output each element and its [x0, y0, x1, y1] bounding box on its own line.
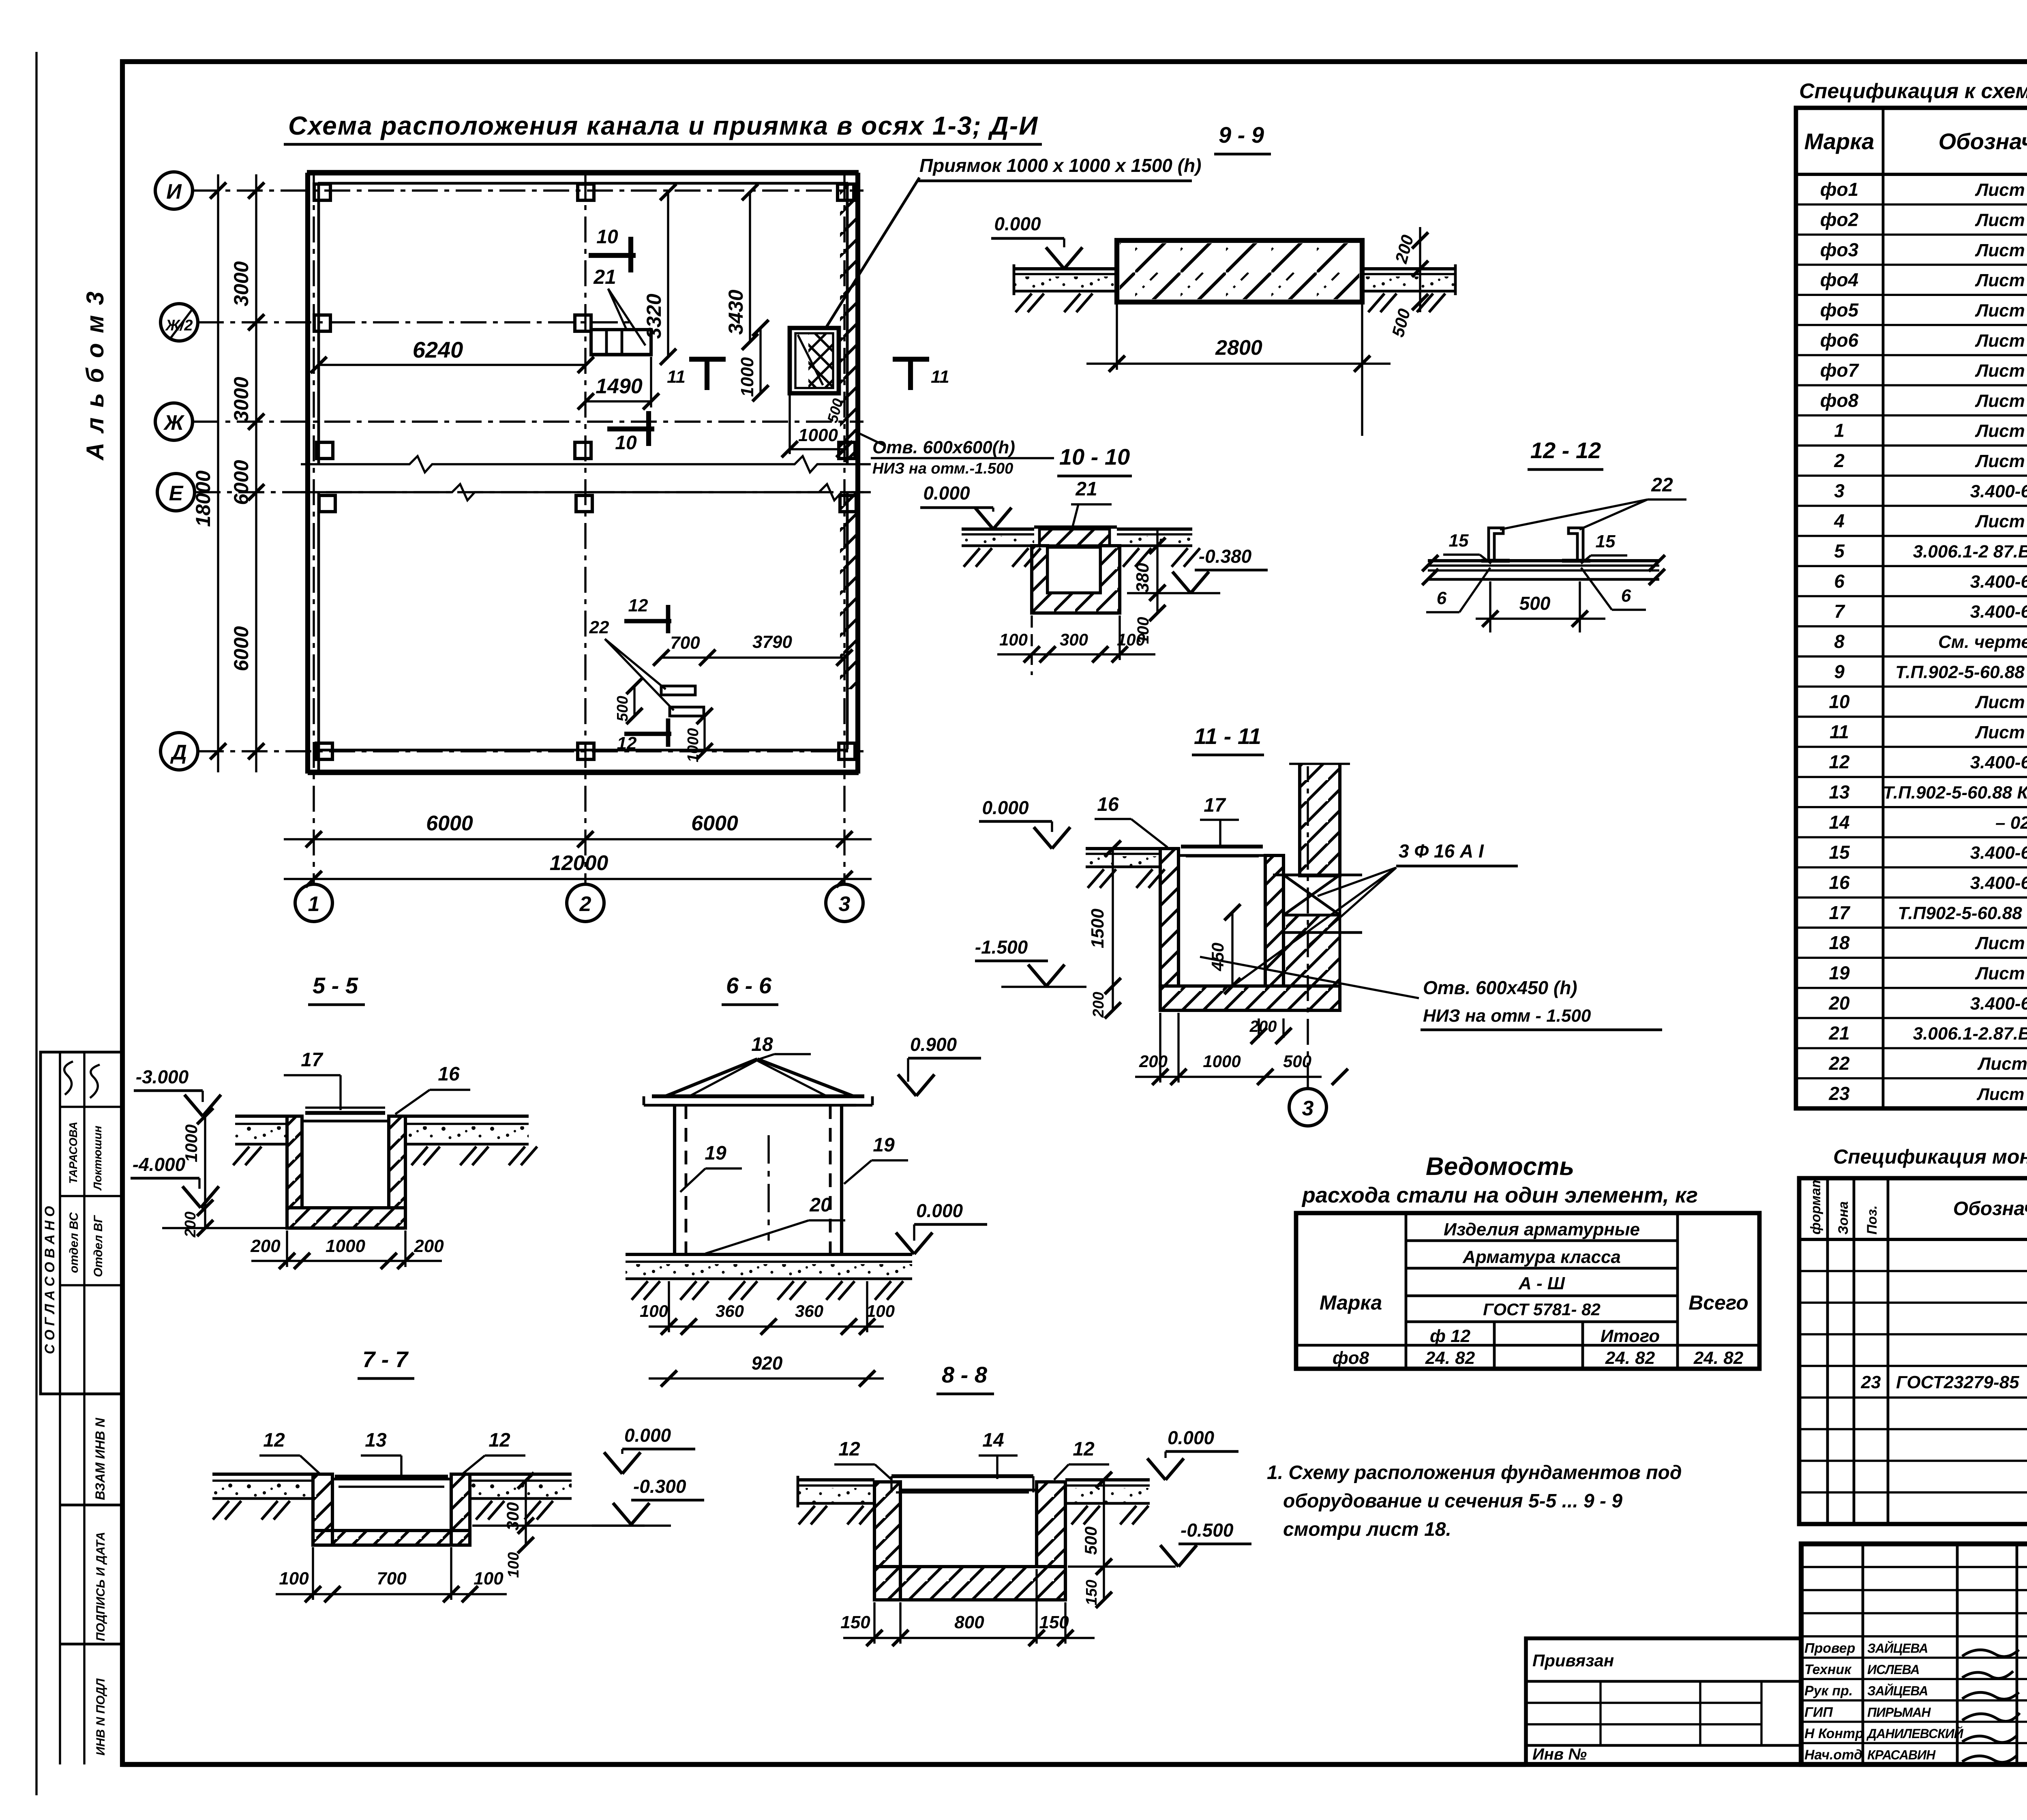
- svg-text:Схема расположения канала и: Схема расположения канала и приямка в ос…: [288, 111, 1038, 140]
- svg-text:19: 19: [1829, 962, 1850, 983]
- section 12-12 bracket right item 22: [1568, 528, 1583, 561]
- svg-text:смотри лист 18.: смотри лист 18.: [1283, 1519, 1451, 1540]
- dimension 3320 rotated: [667, 192, 669, 357]
- svg-text:0.000: 0.000: [982, 797, 1029, 818]
- svg-text:920: 920: [752, 1353, 783, 1374]
- svg-text:200: 200: [182, 1211, 199, 1237]
- svg-text:13: 13: [365, 1430, 387, 1451]
- svg-text:Лист 18: Лист 18: [1975, 421, 2027, 441]
- section 11-11 cover plate: [1181, 845, 1263, 849]
- section 6-6 eave caps: [643, 1096, 645, 1105]
- svg-text:10 - 10: 10 - 10: [1059, 444, 1130, 469]
- section 8-8 pit cavity: [900, 1490, 1037, 1567]
- svg-text:6: 6: [1834, 570, 1845, 592]
- svg-text:фо8: фо8: [1820, 390, 1859, 411]
- section 12-12 bracket left item 22: [1489, 528, 1503, 561]
- svg-text:фо1: фо1: [1820, 179, 1858, 200]
- section mark 11 right: [893, 357, 929, 362]
- frame bottom continues left of title extension: [122, 1762, 1526, 1767]
- svg-text:22: 22: [589, 617, 609, 637]
- svg-text:13: 13: [1829, 782, 1850, 803]
- svg-text:6000: 6000: [230, 626, 253, 671]
- svg-text:100: 100: [1117, 630, 1145, 649]
- svg-text:12: 12: [838, 1438, 860, 1460]
- svg-text:формат: формат: [1808, 1176, 1823, 1235]
- section 6-6 roof lines: [665, 1059, 757, 1096]
- section 5-5 cover plate 17: [305, 1111, 385, 1115]
- svg-text:17: 17: [1829, 902, 1851, 923]
- svg-text:Отдел ВГ: Отдел ВГ: [92, 1215, 105, 1277]
- svg-text:100: 100: [999, 630, 1028, 649]
- section 8-8 left slab: [798, 1478, 874, 1481]
- svg-text:0.900: 0.900: [910, 1034, 957, 1055]
- svg-text:ДАНИЛЕВСКИЙ: ДАНИЛЕВСКИЙ: [1866, 1726, 1964, 1741]
- svg-text:ГИП: ГИП: [1804, 1704, 1833, 1720]
- plan right wall hatching lower: [840, 493, 857, 689]
- axis line E: [195, 491, 864, 493]
- svg-text:10: 10: [615, 432, 637, 454]
- svg-text:Лист 17: Лист 17: [1975, 361, 2027, 381]
- section 5-5 left dim verticals: [204, 1116, 206, 1228]
- svg-text:500: 500: [614, 696, 631, 721]
- svg-text:Марка: Марка: [1804, 129, 1875, 154]
- svg-text:ГОСТ 5781- 82: ГОСТ 5781- 82: [1483, 1300, 1601, 1319]
- svg-text:Всего: Всего: [1688, 1291, 1748, 1314]
- section 8-8 pit left wall: [874, 1482, 900, 1600]
- svg-text:5: 5: [1834, 540, 1845, 562]
- big table rows: [1796, 204, 2027, 206]
- svg-text:9 - 9: 9 - 9: [1219, 122, 1264, 148]
- svg-text:Т.П902-5-60.88 -КЖИ170.00: Т.П902-5-60.88 -КЖИ170.00: [1898, 903, 2027, 923]
- svg-text:Лист 18: Лист 18: [1975, 722, 2027, 742]
- column squares row Zh: [317, 442, 333, 459]
- section 12-12 dim 500: [1476, 617, 1605, 620]
- svg-text:2: 2: [579, 892, 591, 916]
- svg-text:450: 450: [1208, 943, 1227, 971]
- dimension 500 rotated near D: [633, 686, 635, 716]
- section 10-10 left slab: [962, 527, 1034, 531]
- svg-text:Зона: Зона: [1836, 1201, 1851, 1235]
- svg-text:14: 14: [1829, 812, 1849, 833]
- axis circle 3: [826, 884, 863, 922]
- section 11-11 dim 200 small: [1258, 1018, 1260, 1038]
- svg-text:Е: Е: [169, 482, 184, 505]
- svg-text:12: 12: [1829, 751, 1850, 772]
- extension privyazan row: [1526, 1680, 1801, 1683]
- section 8-8 right slab: [1065, 1478, 1150, 1481]
- section 9-9 right slab: [1362, 267, 1455, 270]
- svg-text:18: 18: [1829, 932, 1850, 953]
- svg-text:800: 800: [954, 1612, 984, 1632]
- plan right wall inner line: [846, 183, 849, 463]
- svg-text:1000: 1000: [1203, 1052, 1241, 1071]
- dimension 3790 near D: [707, 656, 844, 658]
- svg-text:12: 12: [617, 733, 637, 753]
- svg-text:ПОДПИСЬ И ДАТА: ПОДПИСЬ И ДАТА: [94, 1532, 107, 1641]
- title block outer box: [1801, 1544, 2027, 1764]
- svg-text:700: 700: [377, 1569, 407, 1588]
- axis circle D: [161, 733, 198, 770]
- title block left grid verticals: [1862, 1544, 1864, 1764]
- svg-text:100: 100: [279, 1569, 309, 1588]
- section 6-6 top band: [652, 1094, 864, 1098]
- svg-text:500: 500: [1519, 593, 1551, 614]
- plan top wall outer line: [307, 170, 859, 176]
- svg-text:24. 82: 24. 82: [1693, 1348, 1744, 1368]
- bottom dimension line first: [284, 838, 872, 840]
- signature scribbles: [1962, 1650, 2019, 1657]
- second table outer box: [1799, 1178, 2027, 1524]
- svg-text:3000: 3000: [230, 377, 253, 422]
- vedomost table horizontals: [1406, 1239, 1678, 1242]
- svg-text:Лист 17: Лист 17: [1975, 933, 2027, 953]
- section 5-5 bottom dims: [251, 1260, 442, 1262]
- svg-text:5 - 5: 5 - 5: [313, 973, 358, 998]
- vedomost table outer box: [1296, 1213, 1759, 1369]
- svg-text:7 - 7: 7 - 7: [362, 1346, 409, 1372]
- axis circle Zh: [155, 403, 193, 440]
- axis line 3 vertical: [843, 173, 845, 884]
- svg-text:Отв. 600х600(h): Отв. 600х600(h): [872, 437, 1015, 457]
- svg-text:12: 12: [628, 596, 648, 615]
- column squares row I: [314, 184, 330, 200]
- svg-text:6240: 6240: [413, 337, 463, 362]
- svg-text:1500: 1500: [1088, 909, 1108, 948]
- svg-text:Техник: Техник: [1804, 1662, 1852, 1677]
- dimension 1000 rotated priyamok: [759, 328, 761, 393]
- svg-text:1000: 1000: [326, 1236, 365, 1256]
- section 7-7 pit cavity: [332, 1479, 451, 1531]
- outer cut border left edge: [35, 52, 37, 1795]
- dimension 700 near D: [661, 656, 707, 658]
- priyamok leader to note: [825, 178, 919, 329]
- svg-text:ИСЛЕВА: ИСЛЕВА: [1867, 1662, 1919, 1677]
- section 7-7 pit right wall: [451, 1474, 470, 1545]
- svg-text:100: 100: [866, 1301, 895, 1321]
- axis circle 1: [295, 884, 332, 922]
- otv leader 11-11: [1200, 957, 1419, 998]
- svg-text:12: 12: [489, 1430, 510, 1451]
- svg-text:-3.000: -3.000: [136, 1066, 189, 1087]
- svg-text:НИЗ на отм - 1.500: НИЗ на отм - 1.500: [1423, 1006, 1591, 1026]
- svg-text:22: 22: [1828, 1053, 1850, 1074]
- svg-text:отдел ВС: отдел ВС: [67, 1212, 81, 1273]
- dimension 1000 rotated near D: [703, 716, 705, 751]
- svg-text:11: 11: [667, 367, 686, 387]
- plan top wall inner line: [318, 182, 848, 185]
- svg-text:380: 380: [1133, 563, 1153, 593]
- soglasovano block inner verticals: [59, 1052, 61, 1394]
- svg-text:Лист 18: Лист 18: [1975, 391, 2027, 411]
- svg-text:21: 21: [593, 266, 616, 288]
- section 10-10 channel walls: [1032, 546, 1120, 613]
- column squares row D: [316, 743, 332, 759]
- svg-text:Инв №: Инв №: [1532, 1745, 1587, 1763]
- svg-text:3: 3: [1834, 480, 1845, 501]
- svg-text:3: 3: [839, 892, 851, 916]
- column squares row Zh/2: [314, 315, 330, 331]
- svg-text:Лист 18: Лист 18: [1975, 451, 2027, 471]
- svg-text:17: 17: [1204, 795, 1226, 816]
- svg-text:фо5: фо5: [1820, 299, 1859, 320]
- svg-text:0.000: 0.000: [923, 482, 970, 504]
- section 7-7 left slab: [212, 1473, 313, 1476]
- svg-text:8 - 8: 8 - 8: [942, 1362, 988, 1387]
- svg-text:6: 6: [1621, 586, 1631, 606]
- svg-text:фо7: фо7: [1820, 360, 1860, 381]
- section 11-11 bottom dims: [1135, 1076, 1322, 1078]
- section 5-5 pit bottom slab: [287, 1208, 405, 1228]
- svg-text:15: 15: [1449, 531, 1469, 551]
- title block left grid empty rows: [1801, 1566, 2027, 1568]
- svg-text:15: 15: [1829, 842, 1850, 863]
- section 8-8 right dim 500 150: [1103, 1480, 1105, 1600]
- svg-text:12: 12: [1073, 1438, 1095, 1460]
- section 7-7 right slab: [470, 1473, 572, 1476]
- svg-text:ПИРЬМАН: ПИРЬМАН: [1867, 1705, 1931, 1719]
- dimension 1490: [586, 400, 651, 402]
- plan break line lower: [301, 484, 871, 500]
- svg-text:1: 1: [1834, 420, 1845, 441]
- opening leader: [853, 431, 884, 445]
- left dimension line outer: [217, 174, 219, 772]
- svg-text:Т.П.902-5-60.88 -КЖИ100.00: Т.П.902-5-60.88 -КЖИ100.00: [1895, 662, 2027, 682]
- svg-text:Лист 19: Лист 19: [1975, 210, 2027, 230]
- svg-text:150: 150: [1083, 1580, 1100, 1605]
- section 11-11 right structure opening cross: [1283, 875, 1340, 915]
- svg-text:500: 500: [1081, 1526, 1100, 1555]
- column squares row E: [319, 495, 335, 512]
- svg-text:Т.П.902-5-60.88 КЖИ.160.00-03: Т.П.902-5-60.88 КЖИ.160.00-03: [1883, 783, 2027, 803]
- section 6-6 dims 100 360 360 100: [649, 1325, 884, 1327]
- section 8-8 pit bottom slab: [874, 1567, 1065, 1600]
- svg-text:Лист 18: Лист 18: [1975, 692, 2027, 712]
- svg-text:Обозначение: Обозначение: [1939, 129, 2027, 154]
- section 5-5 right slab: [405, 1115, 529, 1118]
- section 6-6 left wall: [673, 1105, 676, 1254]
- svg-text:3430: 3430: [724, 289, 747, 334]
- section 10-10 bottom dims: [997, 653, 1155, 655]
- axis circle 2: [567, 884, 604, 922]
- svg-text:Лист 19: Лист 19: [1975, 331, 2027, 351]
- vedomost table verticals: [1405, 1213, 1408, 1369]
- svg-text:3: 3: [1302, 1097, 1314, 1120]
- axis line Zh: [193, 420, 864, 422]
- svg-text:Лист 19: Лист 19: [1975, 180, 2027, 200]
- signature squiggle 1: [64, 1061, 73, 1095]
- svg-text:Спецификация к схеме располо: Спецификация к схеме расположения фундам…: [1799, 79, 2027, 103]
- svg-text:3.006.1-2 87.Вып.0;1...4: 3.006.1-2 87.Вып.0;1...4: [1913, 542, 2027, 562]
- svg-text:Итого: Итого: [1601, 1326, 1660, 1346]
- section 11-11 pit bottom: [1160, 986, 1340, 1010]
- svg-text:Нач.отд: Нач.отд: [1804, 1747, 1862, 1763]
- podpis i data block: [60, 1504, 122, 1507]
- svg-text:Приямок 1000 х 1000 х 1500 (h: Приямок 1000 х 1000 х 1500 (h): [919, 155, 1201, 176]
- section 6-6 base slab: [626, 1253, 912, 1256]
- section 9-9 dim 500 rotated: [1419, 269, 1421, 312]
- svg-text:ИНВ N ПОДЛ: ИНВ N ПОДЛ: [94, 1678, 107, 1756]
- svg-text:1490: 1490: [596, 375, 643, 398]
- svg-text:12000: 12000: [550, 851, 609, 875]
- svg-text:ВЗАМ ИНВ N: ВЗАМ ИНВ N: [93, 1417, 107, 1500]
- plan left wall inner line lower: [317, 492, 320, 772]
- section 6-6 dim 920: [649, 1377, 884, 1379]
- svg-text:3.400-6/76: 3.400-6/76: [1970, 602, 2027, 622]
- svg-text:КРАСАВИН: КРАСАВИН: [1867, 1748, 1936, 1762]
- svg-text:Обозначение: Обозначение: [1953, 1198, 2027, 1220]
- svg-text:Ж: Ж: [163, 411, 185, 435]
- svg-text:1000: 1000: [182, 1124, 201, 1162]
- svg-text:3.400-6/76: 3.400-6/76: [1970, 873, 2027, 893]
- svg-text:16: 16: [1829, 872, 1850, 893]
- svg-text:100: 100: [474, 1569, 504, 1588]
- plan break line upper: [301, 456, 871, 472]
- svg-text:3.400-6/76: 3.400-6/76: [1970, 752, 2027, 772]
- svg-text:-0.380: -0.380: [1199, 546, 1252, 567]
- svg-text:2: 2: [1834, 450, 1845, 471]
- svg-text:1000: 1000: [685, 728, 702, 763]
- section 11-11 right wall below opening: [1283, 915, 1340, 986]
- svg-text:3000: 3000: [230, 261, 253, 306]
- svg-text:3320: 3320: [643, 294, 665, 339]
- svg-text:-1.500: -1.500: [975, 937, 1028, 958]
- svg-text:фо2: фо2: [1820, 209, 1859, 230]
- svg-text:Марка: Марка: [1320, 1291, 1382, 1314]
- section 11-11 dim 450 rotated: [1231, 912, 1233, 986]
- svg-text:15: 15: [1596, 532, 1616, 551]
- section 11-11 axis circle 3: [1289, 1089, 1326, 1126]
- svg-text:150: 150: [840, 1612, 870, 1632]
- svg-text:Локтюшин: Локтюшин: [91, 1125, 104, 1191]
- svg-text:1: 1: [308, 892, 320, 916]
- svg-text:ф 12: ф 12: [1430, 1326, 1471, 1346]
- section 8-8 cover plate 14: [891, 1474, 1033, 1478]
- svg-text:3.400-6/76: 3.400-6/76: [1970, 481, 2027, 501]
- extension grid: [1526, 1702, 1761, 1704]
- svg-text:фо4: фо4: [1820, 269, 1858, 290]
- svg-text:А - Ш: А - Ш: [1518, 1273, 1565, 1293]
- svg-text:20: 20: [809, 1194, 831, 1216]
- svg-text:Изделия арматурные: Изделия арматурные: [1444, 1220, 1640, 1239]
- svg-text:6000: 6000: [230, 460, 253, 505]
- svg-text:200: 200: [1090, 992, 1107, 1018]
- svg-text:3 Ф 16 А I: 3 Ф 16 А I: [1399, 840, 1484, 862]
- svg-text:360: 360: [716, 1301, 744, 1321]
- svg-text:6000: 6000: [691, 812, 738, 835]
- section 11-11 left slab: [1086, 847, 1160, 850]
- svg-text:24. 82: 24. 82: [1605, 1348, 1655, 1368]
- svg-text:18: 18: [751, 1034, 773, 1055]
- section 9-9 dim 2800: [1086, 362, 1391, 364]
- section 7-7 bottom dims: [276, 1593, 507, 1595]
- svg-text:10: 10: [1829, 691, 1850, 712]
- axis circle I: [155, 172, 193, 209]
- svg-text:6 - 6: 6 - 6: [726, 973, 772, 998]
- svg-text:– 02: – 02: [1995, 813, 2027, 833]
- svg-text:Поз.: Поз.: [1864, 1205, 1880, 1235]
- svg-text:0.000: 0.000: [916, 1200, 963, 1221]
- svg-text:0.000: 0.000: [1168, 1427, 1215, 1448]
- title block extension box: [1526, 1638, 1801, 1764]
- section 5-5 pit walls: [287, 1116, 302, 1208]
- svg-text:360: 360: [795, 1301, 823, 1321]
- svg-text:21: 21: [1075, 478, 1097, 500]
- bottom dimension line second: [284, 878, 872, 880]
- svg-text:Н Контр: Н Контр: [1804, 1726, 1864, 1741]
- svg-text:200: 200: [250, 1236, 281, 1256]
- svg-text:ЗАЙЦЕВА: ЗАЙЦЕВА: [1867, 1684, 1928, 1698]
- svg-text:оборудование и сечения 5-5: оборудование и сечения 5-5 ... 9 - 9: [1283, 1490, 1622, 1512]
- vzam inv block: [60, 1393, 122, 1396]
- svg-text:23: 23: [1828, 1083, 1850, 1104]
- svg-text:10: 10: [596, 226, 618, 248]
- svg-text:17: 17: [301, 1049, 324, 1071]
- svg-text:12: 12: [263, 1430, 285, 1451]
- svg-text:Лист 17: Лист 17: [1975, 963, 2027, 983]
- svg-text:2800: 2800: [1215, 336, 1262, 360]
- svg-text:А л ь б о м 3: А л ь б о м 3: [81, 290, 109, 461]
- axis line Zh/2: [198, 321, 632, 323]
- svg-text:0.000: 0.000: [624, 1425, 671, 1446]
- svg-text:7: 7: [1834, 601, 1845, 622]
- svg-text:19: 19: [873, 1134, 895, 1156]
- svg-text:3790: 3790: [752, 632, 792, 652]
- soglasovano block row lines: [60, 1106, 122, 1108]
- section 11-11 pit right wall: [1265, 855, 1283, 986]
- svg-text:-4.000: -4.000: [133, 1154, 186, 1175]
- big table column lines: [1882, 108, 1885, 1108]
- section 6-6 centerline: [767, 1135, 769, 1241]
- plan right wall inner line lower: [846, 492, 849, 749]
- svg-text:300: 300: [1060, 630, 1088, 649]
- svg-text:фо6: фо6: [1820, 330, 1859, 351]
- section 8-8 pit right wall: [1037, 1482, 1065, 1567]
- svg-text:23: 23: [1861, 1372, 1881, 1392]
- plan bottom wall inner line: [318, 749, 848, 752]
- svg-text:И: И: [166, 180, 182, 204]
- svg-text:фо3: фо3: [1820, 239, 1859, 260]
- svg-text:100: 100: [505, 1552, 522, 1578]
- svg-text:6: 6: [1437, 588, 1447, 608]
- svg-text:Отв. 600х450 (h): Отв. 600х450 (h): [1423, 977, 1577, 998]
- section 9-9 foundation block: [1117, 240, 1362, 302]
- svg-text:Ведомость: Ведомость: [1426, 1153, 1574, 1181]
- section 12-12 slab: [1428, 559, 1659, 562]
- section mark 11 left: [689, 357, 726, 362]
- svg-text:1000: 1000: [737, 357, 757, 397]
- svg-text:Лист 19: Лист 19: [1975, 270, 2027, 290]
- svg-text:Провер: Провер: [1804, 1640, 1855, 1656]
- svg-text:1000: 1000: [798, 425, 838, 445]
- svg-text:Лист 19: Лист 19: [1975, 300, 2027, 320]
- section 7-7 right dim 300 100: [525, 1481, 527, 1545]
- svg-text:11: 11: [931, 367, 949, 387]
- section 6-6 right wall: [829, 1105, 832, 1254]
- priyamok crosshatch: [808, 333, 833, 388]
- svg-text:3.400-6/76: 3.400-6/76: [1970, 994, 2027, 1014]
- plan bottom wall outer line: [308, 770, 859, 775]
- section 11-11 pit cavity: [1178, 855, 1265, 986]
- svg-text:Привязан: Привязан: [1532, 1651, 1614, 1670]
- svg-text:22: 22: [1651, 474, 1673, 496]
- svg-text:ГОСТ23279-85: ГОСТ23279-85: [1896, 1372, 2019, 1392]
- section 10-10 right slab: [1117, 527, 1192, 531]
- svg-text:фо8: фо8: [1333, 1348, 1369, 1368]
- svg-text:11: 11: [1830, 721, 1849, 742]
- left dimension line inner: [255, 174, 257, 772]
- plan left wall outer line: [305, 173, 310, 774]
- section 11-11 pit left wall: [1160, 849, 1178, 986]
